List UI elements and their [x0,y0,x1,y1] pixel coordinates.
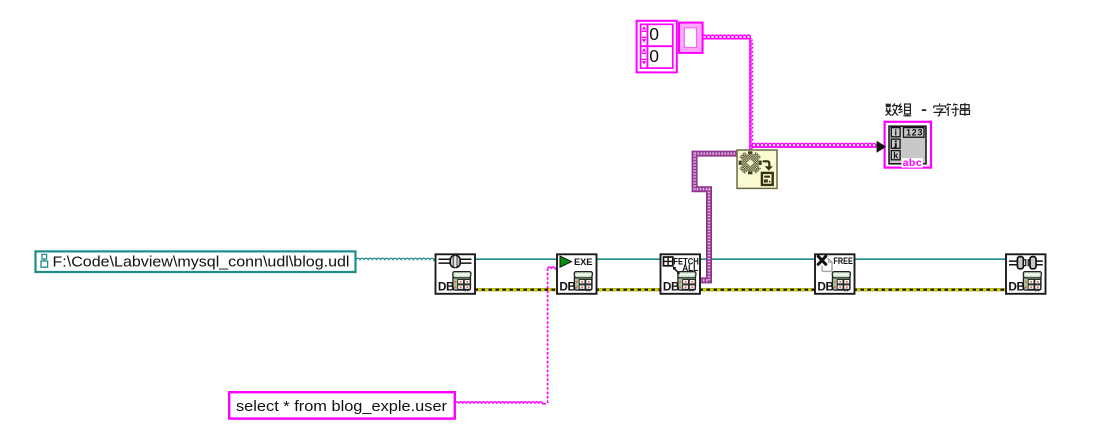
svg-text:select * from blog_exple.user: select * from blog_exple.user [236,398,447,415]
svg-text:ALL: ALL [682,263,698,273]
svg-text:123: 123 [906,127,923,137]
svg-text:DB: DB [559,280,575,294]
svg-text:abc: abc [903,157,923,169]
svg-text:DB: DB [1008,280,1024,294]
svg-text:F:\Code\Labview\mysql_conn\udl: F:\Code\Labview\mysql_conn\udl\blog.udl [53,255,350,271]
svg-text:0: 0 [649,46,659,66]
svg-text:DB: DB [438,280,454,294]
svg-text:DB: DB [817,280,833,294]
svg-text:FREE: FREE [833,256,853,266]
svg-text:EXE: EXE [574,257,593,267]
svg-text:0: 0 [649,24,659,44]
svg-text:DB: DB [663,280,679,294]
svg-text:i: i [894,127,897,137]
